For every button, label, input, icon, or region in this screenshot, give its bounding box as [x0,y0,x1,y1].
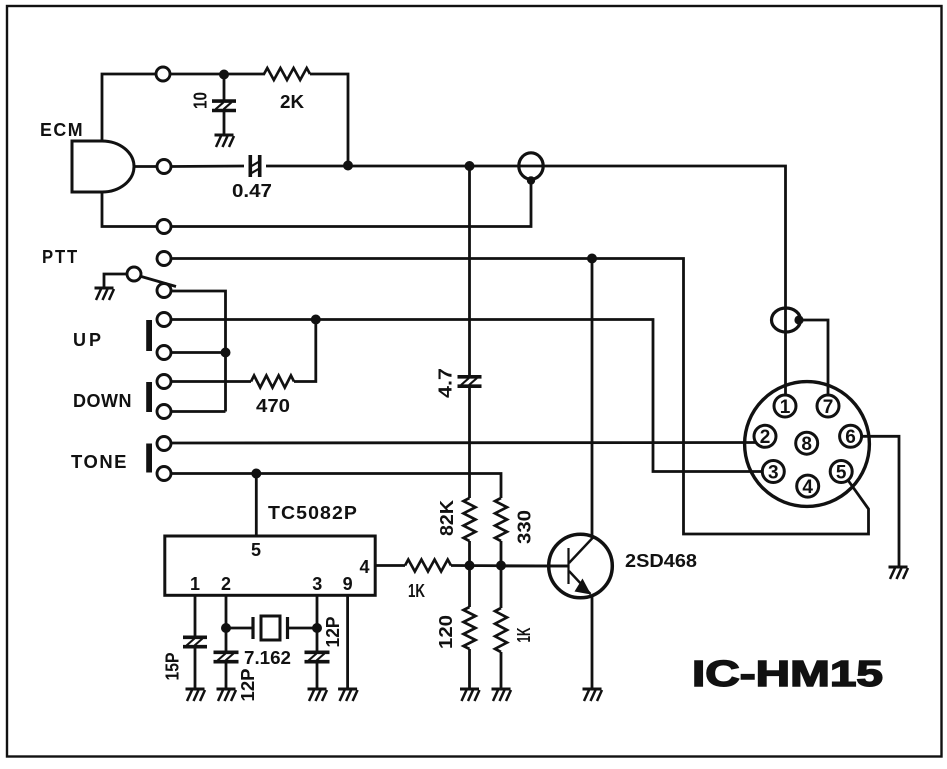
svg-text:12P: 12P [238,669,258,702]
svg-text:10: 10 [191,92,211,109]
svg-text:2SD468: 2SD468 [625,551,697,571]
crystal X1 body [261,616,280,640]
wire switch to ground [104,274,127,287]
terminal PTT switch out [157,284,171,298]
pushbutton DOWN bar [146,382,152,412]
connector pin 3 [762,461,784,483]
svg-text:4: 4 [359,557,369,577]
ground 120 [460,689,480,701]
svg-text:1K: 1K [408,581,425,601]
node plug2 branch dot [794,315,803,324]
wire DOWN to resistor [171,380,251,383]
capacitor 12P right [305,652,330,661]
terminal DOWN top [157,375,171,389]
svg-text:DOWN: DOWN [73,391,132,411]
wire 330 to node [500,541,503,566]
node audio plug shield dot [527,176,535,184]
wire base node to 120 [468,566,471,608]
crystal X1 right plate [286,617,289,639]
transistor Q1 base bar [567,548,569,584]
wire 4.7 to 82K [468,388,471,498]
transistor Q1 emitter stroke [569,571,591,594]
node 2K/mic-out junction [343,161,353,171]
svg-text:2: 2 [760,427,771,448]
transistor Q1 collector stroke [569,538,593,564]
svg-text:470: 470 [256,396,290,416]
node pin2/crystal junction [221,623,231,633]
svg-text:TC5082P: TC5082P [268,503,358,523]
svg-text:1K: 1K [514,628,534,643]
svg-text:7: 7 [823,397,834,418]
svg-text:3: 3 [768,462,779,483]
resistor 2K [264,68,310,80]
wire shield branch down-left [171,181,531,227]
wire plug2 branch to pin7 [799,320,828,396]
ground 15P [186,689,206,701]
IC U1 TC5082P body [165,536,375,595]
wire base lead drawn under circle [501,565,568,568]
node pin3/crystal junction [312,623,322,633]
wire 120 to ground [468,649,471,689]
terminal DOWN bottom [157,405,171,419]
switch PTT common contact [127,267,141,281]
svg-text:6: 6 [845,427,856,448]
wire TONE line to connector pin2 [171,441,757,444]
wire 82K to base node [468,541,471,566]
svg-text:3: 3 [312,574,322,594]
node PTT/collector junction [587,254,597,264]
wire 1K to ground [500,652,503,689]
svg-text:330: 330 [515,510,535,544]
wire IC pin4 lead [375,564,405,567]
wire emitter to ground [591,596,594,689]
wire 470 to UP line [294,320,316,382]
ground 12P left [217,689,237,701]
pushbutton TONE bar [146,444,152,473]
wire IC pin1 lead [194,595,197,637]
ground cap10 [215,135,235,147]
svg-text:2: 2 [221,574,231,594]
ground PTT switch [95,288,115,300]
wire 2K to mic-out node [310,74,348,166]
wire supply node [170,73,265,76]
svg-text:UP: UP [73,330,104,350]
connector pin 6 [840,425,862,447]
connector pin 2 [754,425,776,447]
svg-text:7.162: 7.162 [244,648,291,668]
resistor 1K vertical [495,608,507,652]
capacitor 4.7 [458,377,482,386]
svg-text:4.7: 4.7 [436,368,456,398]
resistor 330 [495,498,507,541]
terminal ECM ground [157,220,171,234]
wire TONE bottom line [171,474,501,499]
svg-text:4: 4 [802,477,813,498]
connector symbol audio plug 2 [772,308,801,332]
wire pin6 to ground [861,436,899,567]
svg-text:1: 1 [190,574,200,594]
crystal X1 left plate [251,617,254,639]
wire ECM output lead [134,165,157,168]
ECM microphone body [72,141,134,192]
connector pin 4 [797,475,819,497]
resistor 120 [464,607,476,649]
svg-text:8: 8 [801,434,812,455]
svg-text:PTT: PTT [42,247,79,267]
svg-text:9: 9 [343,574,353,594]
connector pin 8 [796,432,818,454]
svg-text:0.47: 0.47 [232,181,272,201]
node base/330/1K junction [496,561,506,571]
connector symbol audio plug [519,153,543,179]
ground 12P right [308,689,328,701]
wire crystal left lead [226,627,252,630]
connector J1 shell [745,382,870,507]
ground pin6 line [889,567,909,579]
switch PTT arm [140,276,177,287]
svg-text:TONE: TONE [71,452,128,472]
wire node to 1K [500,566,503,609]
wire crystal right lead [288,627,317,630]
resistor 1K horizontal [405,560,451,572]
svg-text:1: 1 [780,397,791,418]
svg-text:120: 120 [436,615,456,649]
wire audio line to right corner [266,166,786,395]
ground emitter [583,689,603,701]
terminal UP top [157,313,171,327]
capacitor 0.47 [249,155,261,177]
wire IC pin5 lead [255,474,258,537]
wire switch out to bus [171,291,226,412]
wire 12P left to ground [225,663,228,689]
node UP/470 junction [311,315,321,325]
wire 1K to base node [451,564,568,567]
wire cap10 stem top [223,74,226,100]
svg-text:5: 5 [836,462,847,483]
wire 12P right to ground [316,663,319,689]
wire UP line to connector pin3 [171,320,762,472]
node cap10 junction [219,70,229,80]
svg-text:ECM: ECM [40,120,84,140]
svg-text:82K: 82K [437,500,457,536]
terminal TONE top [157,437,171,451]
svg-text:12P: 12P [323,617,343,648]
node bus/UP junction [221,348,231,358]
capacitor 15P [183,637,207,646]
terminal ECM output [157,160,171,174]
resistor 82K [464,498,476,541]
wire IC pin9 lead [346,595,349,689]
wire cap10 stem bottom [223,111,226,135]
capacitor 12P left [214,652,239,661]
wire pin3 to 12P [316,628,319,651]
terminal PTT [157,252,171,266]
resistor 470 [251,376,294,388]
wire IC pin2 lead [225,595,228,628]
wire IC pin3 lead [316,595,319,628]
connector pin 1 [774,395,796,417]
wire PTT line [171,259,869,535]
ground pin9 [338,689,358,701]
connector pin 7 [817,395,839,417]
svg-text:15P: 15P [163,653,183,681]
wire DOWN bottom to bus [171,410,226,413]
node audio/4.7 junction [465,161,475,171]
svg-text:5: 5 [251,540,261,560]
wire ECM ground lead [102,192,157,227]
transistor Q1 body circle [549,534,613,598]
wire ECM top lead [102,74,156,141]
ground 1K [492,689,512,701]
capacitor 10 [212,101,236,110]
wire collector to PTT line [591,259,594,540]
wire audio node down to 4.7 [468,166,471,375]
svg-text:2K: 2K [280,92,304,112]
wire 15P to ground [194,648,197,689]
svg-text:IC-HM15: IC-HM15 [692,653,883,694]
wire UP bottom to bus [171,351,226,354]
pushbutton UP bar [146,320,152,351]
wire mic-out left of cap [171,165,244,168]
node TONE/IC pin5 junction [251,469,261,479]
node base/82K/120 junction [465,561,475,571]
wire pin2 to 12P [225,628,228,651]
terminal UP bottom [157,346,171,360]
transistor Q1 emitter arrow [575,579,592,595]
terminal ECM supply [156,67,170,81]
connector pin 5 [830,461,852,483]
terminal TONE bottom [157,467,171,481]
